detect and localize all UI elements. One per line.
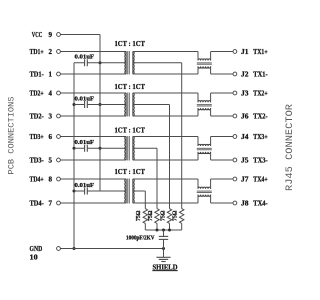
node VCC bus junction — [99, 103, 102, 106]
svg-text:1CT : 1CT: 1CT : 1CT — [115, 126, 146, 134]
wire C1 to VCC bus / center tap of T1 — [87, 62, 126, 64]
choke L3 core — [197, 147, 212, 149]
svg-text:1: 1 — [48, 70, 52, 78]
choke L4 bottom winding — [197, 195, 199, 203]
svg-text:J4: J4 — [241, 133, 249, 141]
svg-text:TD3+: TD3+ — [30, 133, 44, 141]
svg-text:TD2-: TD2- — [30, 112, 45, 120]
svg-text:75Ω: 75Ω — [148, 210, 154, 221]
svg-text:10: 10 — [30, 254, 39, 262]
wire TD2- row — [60, 115, 126, 117]
wire choke L3 to J pin top — [211, 136, 233, 138]
ground symbol (chassis/shield) — [156, 256, 170, 258]
transformer T2 secondary winding — [132, 93, 134, 116]
choke L1 core — [197, 62, 212, 64]
terminal VCC — [57, 33, 61, 37]
node cap bus junction — [73, 190, 76, 193]
transformer T1 primary winding — [125, 52, 127, 75]
transformer T2 primary winding — [125, 93, 127, 116]
node VCC bus junction — [99, 147, 102, 150]
wire TD3+ row — [60, 136, 126, 138]
svg-text:8: 8 — [48, 175, 52, 183]
svg-text:RJ45 CONNECTOR: RJ45 CONNECTOR — [285, 104, 296, 191]
wire T1 secondary center tap to R1 — [133, 62, 182, 64]
wire T3 secondary top to choke L3 — [133, 136, 198, 138]
terminal TD3- — [57, 158, 61, 162]
terminal TD1+ — [57, 50, 61, 54]
node cap bus to GND junction — [73, 247, 76, 250]
wire T3 secondary center tap to R3 — [133, 147, 157, 149]
svg-text:TX3-: TX3- — [253, 156, 268, 164]
wire T2 secondary center tap to R2 — [133, 104, 170, 106]
transformer T4 secondary winding — [132, 179, 134, 203]
choke L3 bottom winding — [197, 152, 199, 160]
resistor R1 75 ohm — [180, 209, 184, 224]
wire T1 secondary bottom to choke L1 — [133, 73, 198, 75]
svg-text:VCC: VCC — [32, 31, 43, 39]
svg-text:3: 3 — [48, 112, 52, 120]
choke L4 top winding — [197, 179, 199, 189]
svg-text:TX1+: TX1+ — [253, 48, 267, 56]
choke L1 top winding — [197, 52, 199, 61]
wire TD1+ row — [60, 51, 126, 53]
node VCC bus junction — [99, 61, 102, 64]
svg-text:1CT : 1CT: 1CT : 1CT — [115, 168, 146, 176]
wire resistor bottom bus — [145, 229, 181, 231]
resistor R4 75 ohm — [143, 209, 147, 224]
svg-text:75Ω: 75Ω — [173, 210, 179, 221]
svg-text:J7: J7 — [241, 175, 249, 183]
svg-text:J3: J3 — [241, 89, 249, 97]
wire TD1- row — [60, 73, 126, 75]
svg-text:TX1-: TX1- — [253, 70, 268, 78]
svg-text:TD4+: TD4+ — [30, 175, 44, 183]
wire choke L2 to J pin top — [211, 92, 233, 94]
svg-text:9: 9 — [48, 31, 52, 39]
transformer T3 primary winding — [125, 137, 127, 161]
wire choke L1 to J pin top — [211, 51, 233, 53]
wire C4 to VCC bus / center tap of T4 — [87, 190, 126, 192]
capacitor C5 1000pF/2KV — [163, 230, 165, 236]
svg-text:7: 7 — [48, 199, 52, 207]
transformer T4 primary winding — [125, 179, 127, 203]
terminal TD1- — [57, 72, 61, 76]
node cap bus junction — [73, 147, 76, 150]
svg-text:75Ω: 75Ω — [136, 210, 142, 221]
wire T2 secondary top to choke L2 — [133, 92, 198, 94]
choke L2 bottom winding — [197, 108, 199, 116]
wire T1 secondary top to choke L1 — [133, 51, 198, 53]
svg-text:75Ω: 75Ω — [160, 210, 166, 221]
svg-text:TD1+: TD1+ — [30, 48, 44, 56]
transformer T1 core — [127, 51, 129, 75]
svg-text:1CT : 1CT: 1CT : 1CT — [115, 83, 146, 91]
svg-text:TX4+: TX4+ — [253, 175, 267, 183]
svg-text:PCB CONNECTIONS: PCB CONNECTIONS — [7, 97, 17, 175]
transformer T2 core — [127, 93, 129, 117]
svg-text:TX3+: TX3+ — [253, 133, 267, 141]
wire TD4+ row — [60, 178, 126, 180]
terminal J7 — [233, 177, 237, 181]
wire choke L4 to J pin bottom — [211, 202, 233, 204]
svg-text:J6: J6 — [241, 112, 249, 120]
choke L3 top winding — [197, 137, 199, 147]
wire choke L1 to J pin bottom — [211, 73, 233, 75]
transformer T1 secondary winding — [132, 52, 134, 75]
wire choke L4 to J pin top — [211, 178, 233, 180]
svg-text:2: 2 — [48, 48, 52, 56]
resistor R3 75 ohm — [155, 209, 159, 224]
svg-text:J8: J8 — [241, 199, 249, 207]
node cap bus junction — [73, 103, 76, 106]
wire C2 to VCC bus / center tap of T2 — [87, 104, 126, 106]
terminal J2 — [233, 72, 237, 76]
svg-text:4: 4 — [48, 89, 52, 97]
wire T4 secondary center tap to R4 — [133, 190, 146, 192]
terminal J4 — [233, 135, 237, 139]
transformer T3 secondary winding — [132, 137, 134, 161]
wire GND row — [60, 248, 163, 250]
wire VCC row — [60, 34, 100, 36]
wire choke L3 to J pin bottom — [211, 159, 233, 161]
svg-text:1000pF/2KV: 1000pF/2KV — [126, 236, 155, 242]
svg-text:TD1-: TD1- — [30, 70, 45, 78]
wire choke L2 to J pin bottom — [211, 115, 233, 117]
wire C3 to VCC bus / center tap of T3 — [87, 147, 126, 149]
terminal TD2+ — [57, 91, 61, 95]
wire T2 secondary bottom to choke L2 — [133, 115, 198, 117]
wire capacitor ground bus — [73, 63, 75, 249]
terminal TD3+ — [57, 135, 61, 139]
terminal J3 — [233, 91, 237, 95]
wire TD3- row — [60, 159, 126, 161]
svg-text:GND: GND — [30, 245, 43, 253]
svg-text:J1: J1 — [241, 48, 249, 56]
svg-text:J2: J2 — [241, 70, 249, 78]
terminal J1 — [233, 50, 237, 54]
choke L2 core — [197, 104, 212, 106]
svg-text:6: 6 — [48, 133, 52, 141]
node resistor bus junctions — [156, 229, 159, 232]
wire VCC vertical bus — [99, 35, 101, 192]
svg-text:5: 5 — [48, 156, 52, 164]
svg-text:TX2-: TX2- — [253, 112, 268, 120]
wire TD4- row — [60, 202, 126, 204]
terminal TD4+ — [57, 177, 61, 181]
terminal TD4- — [57, 201, 61, 205]
svg-text:TD3-: TD3- — [30, 156, 45, 164]
wire T3 secondary bottom to choke L3 — [133, 159, 198, 161]
svg-text:TD4-: TD4- — [30, 199, 45, 207]
svg-text:J5: J5 — [241, 156, 249, 164]
wire T4 secondary top to choke L4 — [133, 178, 198, 180]
transformer T3 core — [127, 136, 129, 161]
svg-text:TD2+: TD2+ — [30, 89, 44, 97]
wire T4 secondary bottom to choke L4 — [133, 202, 198, 204]
node GND to shield cap junction — [162, 247, 165, 250]
svg-text:TX2+: TX2+ — [253, 89, 267, 97]
terminal TD2- — [57, 114, 61, 118]
svg-text:SHIELD: SHIELD — [153, 263, 178, 271]
resistor R2 75 ohm — [167, 209, 171, 224]
choke L1 bottom winding — [197, 66, 199, 74]
wire to chassis ground — [163, 249, 165, 258]
transformer T4 core — [127, 179, 129, 204]
choke L4 core — [197, 190, 212, 192]
terminal J5 — [233, 158, 237, 162]
svg-text:1CT : 1CT: 1CT : 1CT — [115, 40, 146, 48]
terminal J8 — [233, 201, 237, 205]
wire TD2+ row — [60, 92, 126, 94]
choke L2 top winding — [197, 93, 199, 102]
terminal J6 — [233, 114, 237, 118]
svg-text:TX4-: TX4- — [253, 199, 268, 207]
terminal GND — [57, 247, 61, 251]
